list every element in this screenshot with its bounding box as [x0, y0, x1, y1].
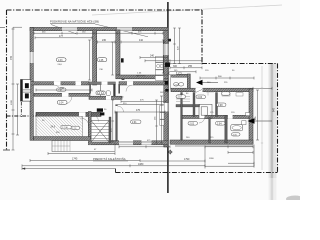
interior wall A: [93, 30, 97, 85]
veranda thin rooms: [172, 75, 189, 78]
interior wall B: [116, 30, 120, 75]
dim right light vertical: [261, 66, 263, 170]
veranda outline: [171, 74, 190, 89]
door gap D2: [127, 81, 133, 85]
wall B blob 2: [122, 75, 125, 80]
gray paper strip right edge: [269, 63, 277, 200]
closet row wall: [176, 105, 200, 107]
dim vertical room3: [162, 40, 165, 73]
svg-text:240: 240: [150, 55, 155, 58]
black corner mark 1: [97, 108, 103, 111]
dim row extra above wing: [145, 59, 202, 62]
pill middle room 2.01: [131, 120, 142, 124]
closet lines wing: [176, 92, 214, 102]
dim middle room vertical b: [155, 100, 158, 143]
dim top outer: [34, 32, 163, 35]
boundary left end tick: [3, 149, 10, 151]
WC partition: [99, 85, 101, 97]
toilet: [106, 91, 110, 96]
bay inner lines: [23, 90, 31, 93]
svg-text:410: 410: [139, 39, 144, 42]
svg-text:1.03: 1.03: [58, 60, 63, 62]
boundary bottom horizontal: [116, 172, 278, 174]
dim vertical right of left block b: [178, 28, 181, 64]
top exterior wall: [30, 27, 168, 30]
window right wall of left block: [164, 44, 169, 55]
wing inner horizontal wall: [181, 115, 249, 118]
entrance door gap: [196, 88, 203, 92]
dim bottom right rows: [205, 162, 254, 168]
stair west wall: [88, 112, 91, 144]
pill room 1.04: [57, 101, 67, 105]
stair door arc: [92, 115, 99, 122]
pill veranda b: [175, 83, 184, 87]
pill veranda: [174, 83, 179, 86]
wing north wall: [171, 88, 253, 92]
dim middle room vertical: [160, 96, 163, 143]
right edge extension line: [253, 145, 255, 167]
dim middle room upper: [121, 100, 166, 103]
dim bottom 1: [30, 159, 140, 162]
right strip inner line: [271, 64, 273, 200]
shadow under south wall: [175, 144, 253, 147]
boundary right vertical: [277, 64, 279, 173]
svg-text:1790: 1790: [184, 158, 190, 161]
pill wing top 2.08: [217, 103, 227, 107]
short dash segment near bay: [20, 102, 22, 117]
left exterior wall: [30, 27, 33, 140]
window bottom wall middle: [119, 141, 133, 146]
pill wing bottom 2.05: [232, 133, 241, 137]
dim wing top B: [170, 66, 202, 69]
leader line right: [95, 24, 148, 37]
wing partition 5: [209, 118, 211, 144]
svg-text:475: 475: [136, 109, 141, 112]
svg-text:1080: 1080: [138, 163, 144, 166]
dim bottom right 2: [228, 151, 253, 154]
bay flue 2: [25, 93, 29, 98]
stair: [91, 117, 111, 143]
inner wall gap 1: [199, 115, 205, 119]
door swing arcs: [54, 85, 227, 123]
dim vertical room2: [111, 42, 114, 75]
pill room 1.05: [97, 58, 107, 62]
svg-text:477: 477: [59, 35, 64, 38]
pill wing top 2.07: [176, 95, 186, 99]
interior wall C under rooms: [116, 75, 168, 79]
window top 2: [117, 27, 132, 31]
svg-text:255: 255: [188, 65, 193, 68]
svg-text:840: 840: [273, 107, 276, 112]
svg-text:2.08: 2.08: [218, 105, 223, 107]
hatched wall F over terrace: [36, 113, 101, 117]
wing partition 3: [216, 93, 218, 117]
dim room1 inner: [35, 36, 92, 39]
bay outline: [21, 80, 31, 102]
wall B blob 1: [121, 58, 124, 62]
dim corridor small: [36, 89, 92, 92]
left edge tick: [0, 27, 5, 29]
fold artifact diagonal faint line: [92, 5, 282, 15]
terrace bottom wall: [34, 137, 91, 141]
pill room 1.06: [137, 72, 146, 76]
property boundary left: [6, 10, 8, 150]
small partition V2: [113, 84, 115, 96]
wing west partition: [181, 93, 183, 141]
middle block bottom wall: [88, 141, 168, 145]
pill wing bottom 2.03: [216, 122, 226, 126]
window top 1: [62, 27, 77, 31]
dim vertical connector x205: [204, 147, 206, 169]
porch outline below terrace: [52, 141, 115, 152]
middle room top thin line: [118, 104, 164, 106]
entrance arrow 1: [196, 80, 218, 85]
property boundary dash-dot top: [7, 9, 203, 11]
wing right wall: [249, 89, 253, 144]
labels top dim: [42, 32, 142, 34]
boundary connector near terrace: [7, 115, 37, 117]
door swing line: [196, 90, 203, 93]
dim vertical stair column: [112, 100, 115, 142]
small partition V3: [118, 84, 120, 94]
window bottom wall middle b: [142, 141, 152, 146]
pill wing bottom 2.02: [188, 122, 198, 126]
door gap E1: [62, 93, 69, 97]
wing partition 4: [225, 115, 227, 143]
underline prekryta: [93, 160, 128, 162]
svg-text:24,6: 24,6: [51, 127, 56, 129]
svg-text:2.01: 2.01: [132, 122, 137, 124]
wc fixture top right: [246, 113, 250, 116]
wing partition 1: [193, 93, 195, 117]
stair treads: [91, 124, 109, 139]
svg-text:2.06: 2.06: [198, 97, 203, 99]
left bay walls: [21, 80, 31, 102]
dim bottom right 1: [205, 145, 253, 148]
right wall of left block: [164, 31, 168, 148]
title underline: [50, 23, 95, 25]
wing south wall: [170, 140, 253, 144]
heavy section line x=170: [167, 2, 169, 193]
veranda east wall: [187, 74, 190, 90]
corridor wall D: [30, 82, 89, 85]
black corner mark 2: [100, 112, 104, 115]
step connector wall: [88, 140, 91, 146]
stair cross: [91, 121, 109, 143]
pillar black square 1: [165, 63, 170, 67]
pillar black square 2: [165, 81, 169, 85]
dim above left block right: [140, 56, 168, 59]
entrance arrow 2: [248, 118, 273, 124]
dim wing top A: [170, 62, 202, 65]
inner wall gap 2: [228, 115, 233, 119]
door gap E2: [106, 96, 111, 100]
pill room 1.03: [56, 58, 66, 62]
corridor wall E: [34, 93, 90, 96]
svg-text:1.05: 1.05: [99, 60, 104, 62]
dim right of wing: [253, 87, 272, 90]
dim bottom left arrow line: [22, 167, 115, 170]
svg-text:790: 790: [60, 87, 65, 90]
boundary bottom stub: [115, 169, 117, 173]
bay flue 1: [25, 83, 29, 88]
middle room fixtures: [160, 106, 164, 126]
svg-text:PREKRYTÁ KALEŠTOVŇA: PREKRYTÁ KALEŠTOVŇA: [93, 158, 126, 161]
kitchen counter: [155, 57, 163, 81]
boundary upper-right horizontal: [202, 63, 278, 65]
dim vertical room1: [88, 40, 91, 80]
terrace hatched floor: [36, 116, 83, 136]
closet room box: [199, 104, 212, 118]
dim room3: [121, 41, 165, 44]
svg-text:1745: 1745: [72, 158, 78, 161]
bay left wall: [21, 80, 23, 102]
pill wing top 2.06: [196, 95, 206, 99]
dim under bottom wall middle: [119, 145, 170, 148]
svg-text:2.07: 2.07: [178, 97, 183, 99]
survey symbol on section line: [168, 150, 173, 155]
svg-text:17,30: 17,30: [62, 127, 68, 129]
leader line left: [51, 25, 76, 34]
corridor pill: [57, 88, 67, 92]
stair east wall: [109, 117, 111, 143]
dim left inner vertical: [16, 84, 19, 135]
dim room2: [98, 41, 116, 44]
dim bottom 2: [140, 160, 205, 163]
boundary step vertical at x=202: [201, 10, 203, 64]
svg-text:300: 300: [173, 65, 178, 68]
dim wing top C: [170, 70, 196, 73]
terrace second pill: [71, 126, 80, 130]
door gap right wall: [164, 103, 169, 112]
dim left vertical: [12, 27, 23, 150]
small partition V1: [89, 84, 91, 94]
washbasin bathroom: [242, 121, 246, 125]
svg-text:745: 745: [10, 55, 13, 60]
heavy line blob: [168, 39, 171, 42]
partition corridor-room x=116: [115, 105, 117, 141]
svg-text:230: 230: [102, 39, 107, 42]
door gap D1: [54, 81, 61, 85]
dim bottom 3: [22, 164, 205, 167]
svg-text:2.02: 2.02: [190, 123, 195, 125]
dim vertical right of left block a: [173, 28, 176, 64]
bathtub: [231, 125, 243, 131]
svg-text:2.04: 2.04: [217, 123, 222, 125]
dim under porch: [48, 152, 115, 155]
closet furniture rects: [222, 93, 243, 96]
window left: [30, 52, 35, 63]
corner gray blob bottom right: [286, 196, 304, 203]
washbasin double: [96, 91, 105, 95]
porch steps ticks: [52, 141, 70, 152]
upper wing pill: [169, 72, 182, 75]
dim middle room horizontal: [115, 111, 165, 114]
dim right vertical: [256, 90, 259, 140]
svg-text:1.04: 1.04: [59, 103, 64, 105]
scattered tiny labels: [42, 70, 235, 151]
